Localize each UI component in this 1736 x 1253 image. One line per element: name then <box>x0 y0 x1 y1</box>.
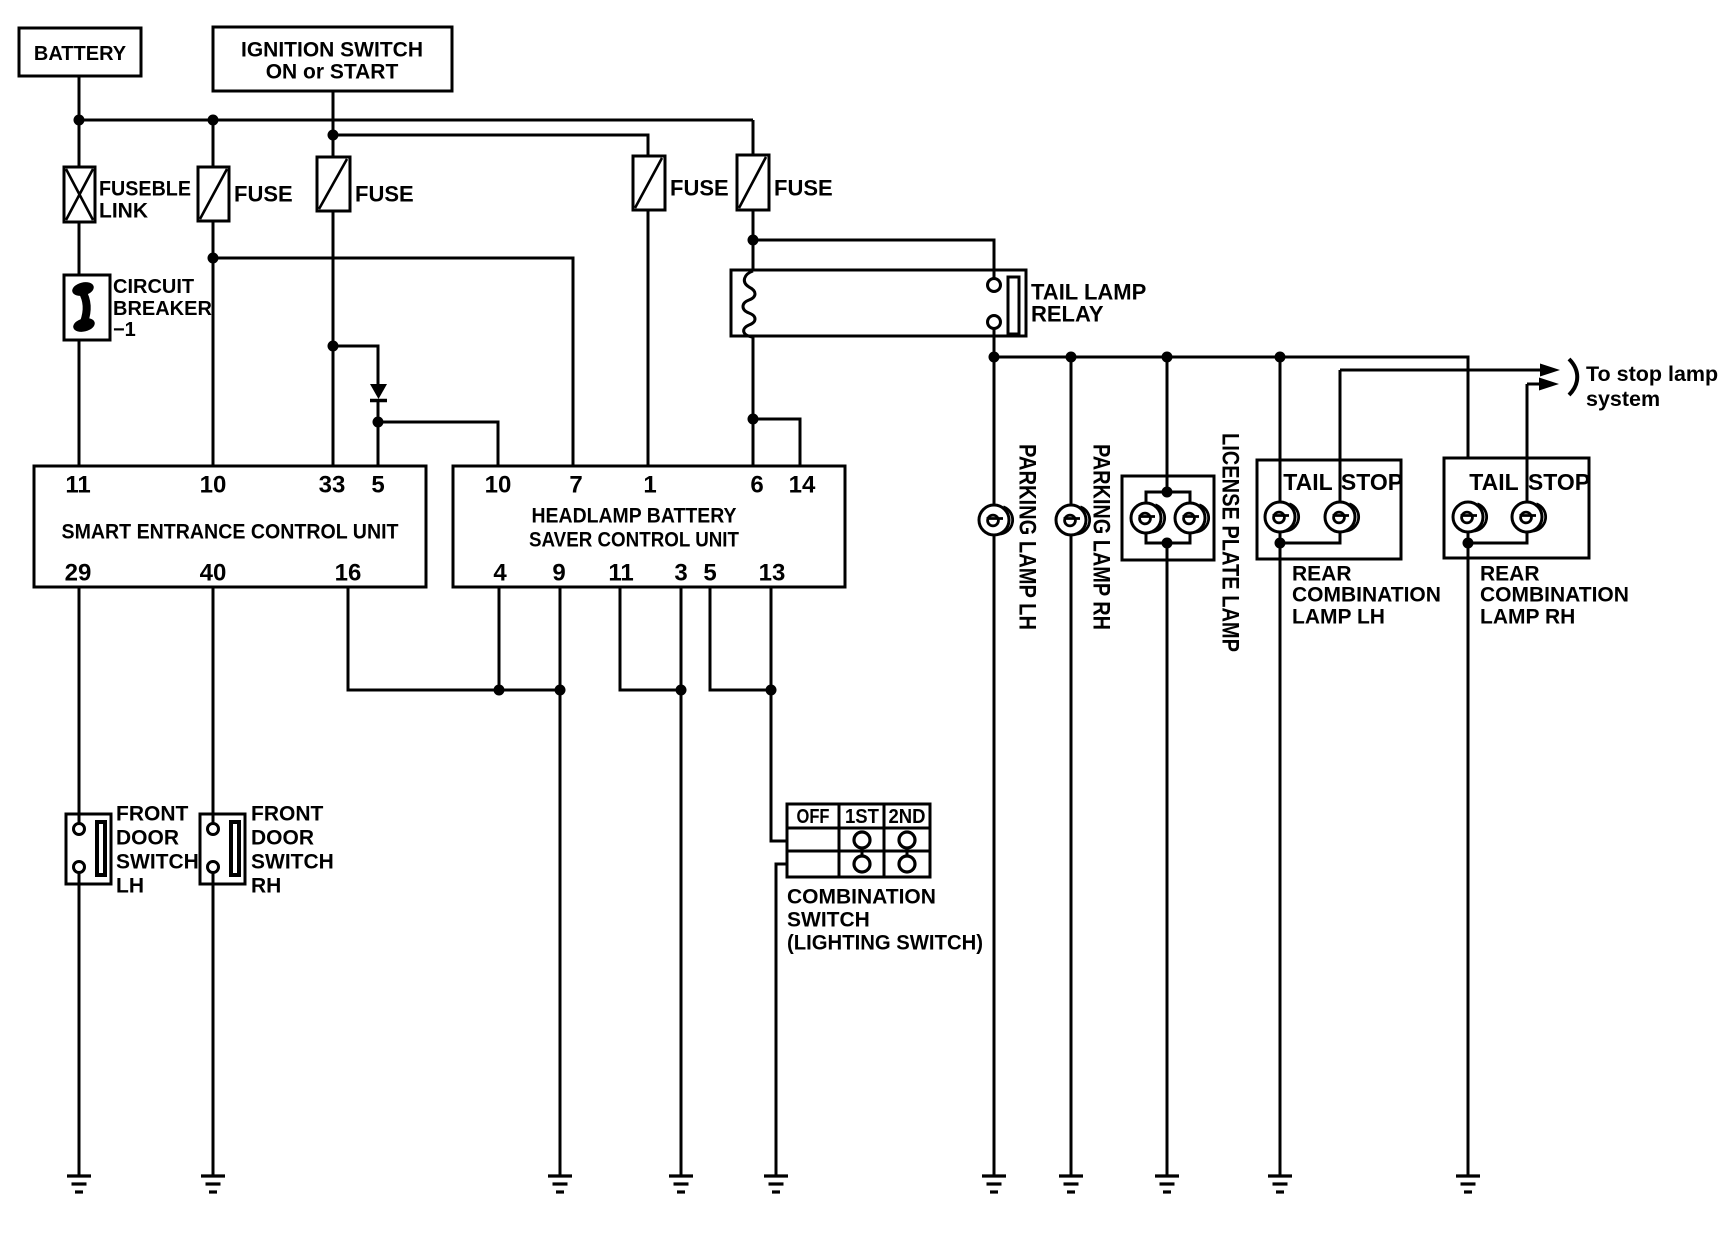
svg-text:FRONT: FRONT <box>251 803 323 826</box>
ignition switch <box>213 27 452 91</box>
ground rear RH <box>1456 1176 1480 1192</box>
wire rear LH bottom link <box>1280 530 1340 543</box>
svg-text:COMBINATION: COMBINATION <box>1480 584 1629 607</box>
svg-text:FUSE: FUSE <box>355 182 414 207</box>
node battery bus junction <box>74 115 85 126</box>
wire license lamp feed <box>1166 357 1169 492</box>
wire rear RH bottom link <box>1468 530 1527 543</box>
ground door LH <box>67 1176 91 1192</box>
wire stop lamp RH <box>1526 384 1529 506</box>
svg-text:7: 7 <box>569 472 582 499</box>
svg-text:RELAY: RELAY <box>1031 302 1104 327</box>
svg-text:REAR: REAR <box>1292 563 1352 586</box>
svg-text:4: 4 <box>493 560 507 587</box>
rear combination lamp LH <box>1257 460 1403 559</box>
wire relay contact out <box>993 328 996 357</box>
node pin10 branch junction <box>373 417 384 428</box>
wire parking lamp LH to ground <box>993 357 996 1176</box>
ground lighting switch <box>764 1176 788 1192</box>
svg-text:2ND: 2ND <box>889 806 926 828</box>
wire coil out to pin 6 <box>752 336 755 466</box>
svg-text:STOP: STOP <box>1528 469 1590 495</box>
ground pin 9 <box>548 1176 572 1192</box>
wire tail lamp bus <box>994 357 1468 506</box>
wire diode out to pin 5 <box>377 399 380 466</box>
node pin3 junction <box>676 685 687 696</box>
front door switch LH <box>66 803 199 898</box>
svg-text:SMART ENTRANCE CONTROL UNIT: SMART ENTRANCE CONTROL UNIT <box>62 521 399 544</box>
svg-text:PARKING LAMP RH: PARKING LAMP RH <box>1088 444 1115 630</box>
diode D1 <box>370 384 387 401</box>
wire pin 40 to door switch RH <box>212 587 215 824</box>
wire door LH to ground <box>78 873 81 1176</box>
svg-text:3: 3 <box>674 560 687 587</box>
wire F4 to relay coil <box>752 209 755 271</box>
wire lighting switch return to ground <box>776 864 787 1176</box>
wire relay contact feed <box>753 240 994 279</box>
node rear RH bottom junction <box>1463 538 1474 549</box>
circuit breaker -1 <box>64 275 212 341</box>
wire pin 16 link <box>348 587 560 690</box>
ground pin 3 <box>669 1176 693 1192</box>
wire pin 3 to ground <box>680 587 683 1176</box>
svg-text:CIRCUIT: CIRCUIT <box>113 276 194 298</box>
wire fuse F4 feed <box>752 120 755 156</box>
stop bulb LH <box>1325 502 1359 532</box>
fusible link <box>64 167 191 223</box>
fuse F3 <box>633 156 729 210</box>
svg-text:−1: −1 <box>113 319 136 341</box>
front door switch RH <box>200 803 334 898</box>
svg-text:SWITCH: SWITCH <box>787 909 870 932</box>
wire parking lamp RH to ground <box>1070 357 1073 1176</box>
svg-text:40: 40 <box>200 560 227 587</box>
wire pin14 branch <box>753 419 800 466</box>
svg-text:9: 9 <box>552 560 565 587</box>
svg-text:11: 11 <box>608 560 633 587</box>
svg-text:10: 10 <box>200 472 227 499</box>
wire to stop lamp system 2 <box>1527 378 1559 391</box>
wire to stop lamp system 1 <box>1340 364 1560 377</box>
svg-text:FUSEBLE: FUSEBLE <box>99 178 191 201</box>
svg-text:LAMP LH: LAMP LH <box>1292 606 1385 629</box>
svg-text:COMBINATION: COMBINATION <box>1292 584 1441 607</box>
wire F3 to pin 1 <box>647 209 650 466</box>
svg-text:29: 29 <box>65 560 92 587</box>
label to stop lamp system <box>1569 359 1718 411</box>
wire pin 5 link <box>710 587 771 690</box>
node fuse F1 tap <box>208 115 219 126</box>
svg-text:COMBINATION: COMBINATION <box>787 886 936 909</box>
wire rear LH tail to ground <box>1279 357 1282 1176</box>
svg-text:DOOR: DOOR <box>116 827 179 850</box>
svg-text:1: 1 <box>643 472 656 499</box>
svg-text:16: 16 <box>335 560 362 587</box>
svg-text:5: 5 <box>703 560 716 587</box>
svg-text:BREAKER: BREAKER <box>113 298 212 320</box>
wire F1 to pin 10 <box>212 220 215 466</box>
node parking RH tap <box>1066 352 1077 363</box>
wire battery bus <box>79 119 753 122</box>
svg-text:ON or START: ON or START <box>266 61 399 84</box>
fuse F1 <box>198 167 293 221</box>
battery <box>19 28 141 76</box>
fuse F4 <box>737 155 833 210</box>
svg-text:(LIGHTING SWITCH): (LIGHTING SWITCH) <box>787 932 983 955</box>
svg-text:REAR: REAR <box>1480 563 1540 586</box>
svg-text:6: 6 <box>750 472 763 499</box>
svg-text:SWITCH: SWITCH <box>251 851 334 874</box>
node pin13 junction <box>766 685 777 696</box>
node pin4 junction <box>494 685 505 696</box>
wire fusible link to breaker <box>78 221 81 276</box>
wire ignition feed <box>332 91 335 158</box>
node relay contact tap <box>748 235 759 246</box>
wire door RH to ground <box>212 873 215 1176</box>
svg-text:system: system <box>1586 387 1660 411</box>
svg-text:DOOR: DOOR <box>251 827 314 850</box>
svg-text:PARKING LAMP LH: PARKING LAMP LH <box>1014 444 1041 630</box>
svg-text:To stop lamp: To stop lamp <box>1586 362 1718 386</box>
svg-text:13: 13 <box>759 560 786 587</box>
wire pin10 branch <box>378 422 498 466</box>
combination switch (lighting switch) <box>787 804 983 955</box>
svg-text:TAIL: TAIL <box>1283 469 1332 495</box>
node rear LH bottom junction <box>1275 538 1286 549</box>
svg-text:BATTERY: BATTERY <box>34 43 127 65</box>
tail bulb RH <box>1453 502 1487 532</box>
svg-text:33: 33 <box>319 472 346 499</box>
wire battery feed <box>78 76 81 121</box>
svg-text:FUSE: FUSE <box>774 176 833 201</box>
wire pin7 net <box>213 258 573 466</box>
wire pin 4 <box>498 587 501 690</box>
tail lamp relay <box>731 270 1146 337</box>
wire pin 13 to lighting switch <box>771 587 787 841</box>
svg-text:14: 14 <box>789 472 816 499</box>
svg-text:HEADLAMP BATTERY: HEADLAMP BATTERY <box>532 505 737 528</box>
fuse F2 <box>317 157 414 211</box>
ground license lamp <box>1155 1176 1179 1192</box>
node pin7 net tap <box>208 253 219 264</box>
wire license lamp to ground <box>1166 543 1169 1176</box>
svg-text:FUSE: FUSE <box>234 182 293 207</box>
rear combination lamp RH <box>1444 458 1590 558</box>
node diode tap <box>328 341 339 352</box>
svg-text:LAMP RH: LAMP RH <box>1480 606 1575 629</box>
svg-text:5: 5 <box>371 472 384 499</box>
parking lamp RH <box>1056 505 1090 535</box>
parking lamp LH <box>979 505 1013 535</box>
svg-text:SAVER CONTROL UNIT: SAVER CONTROL UNIT <box>529 529 739 552</box>
svg-text:TAIL: TAIL <box>1469 469 1518 495</box>
node pin14 branch junction <box>748 414 759 425</box>
wire pin 11 link <box>620 587 681 690</box>
license plate lamp <box>1122 476 1214 560</box>
svg-text:FRONT: FRONT <box>116 803 188 826</box>
svg-text:RH: RH <box>251 875 281 898</box>
node license lamp tap <box>1162 352 1173 363</box>
svg-text:LICENSE PLATE LAMP: LICENSE PLATE LAMP <box>1217 433 1244 652</box>
svg-text:FUSE: FUSE <box>670 176 729 201</box>
wire fuse F1 feed <box>212 120 215 168</box>
node tail bus start <box>989 352 1000 363</box>
ground door RH <box>201 1176 225 1192</box>
ground parking lamp RH <box>1059 1176 1083 1192</box>
tail bulb LH <box>1265 502 1299 532</box>
label rear combination lamp LH <box>1292 563 1441 629</box>
stop bulb RH <box>1512 502 1546 532</box>
wire stop lamp LH <box>1339 370 1342 506</box>
wire pin 9 to ground <box>559 587 562 1176</box>
ground parking lamp LH <box>982 1176 1006 1192</box>
wire F2 to pin 33 <box>332 210 335 466</box>
ground rear LH <box>1268 1176 1292 1192</box>
wire rear RH tail to ground <box>1467 506 1470 1176</box>
svg-text:IGNITION SWITCH: IGNITION SWITCH <box>241 39 423 62</box>
wire diode feed <box>333 346 378 385</box>
svg-text:11: 11 <box>65 472 90 499</box>
svg-text:STOP: STOP <box>1341 469 1403 495</box>
wire pin 29 to door switch LH <box>78 587 81 824</box>
headlamp battery saver control unit <box>453 466 845 587</box>
svg-text:OFF: OFF <box>797 806 830 828</box>
svg-text:10: 10 <box>485 472 512 499</box>
node rear LH tap <box>1275 352 1286 363</box>
svg-text:LINK: LINK <box>99 200 148 223</box>
svg-text:LH: LH <box>116 875 144 898</box>
label rear combination lamp RH <box>1480 563 1629 629</box>
wire fusible link feed <box>78 120 81 168</box>
node ignition branch junction <box>328 130 339 141</box>
smart entrance control unit <box>34 466 426 587</box>
svg-text:1ST: 1ST <box>845 806 879 828</box>
svg-text:SWITCH: SWITCH <box>116 851 199 874</box>
wire breaker to pin 11 <box>78 339 81 466</box>
wire ignition branch <box>333 135 648 157</box>
node pin9 junction <box>555 685 566 696</box>
